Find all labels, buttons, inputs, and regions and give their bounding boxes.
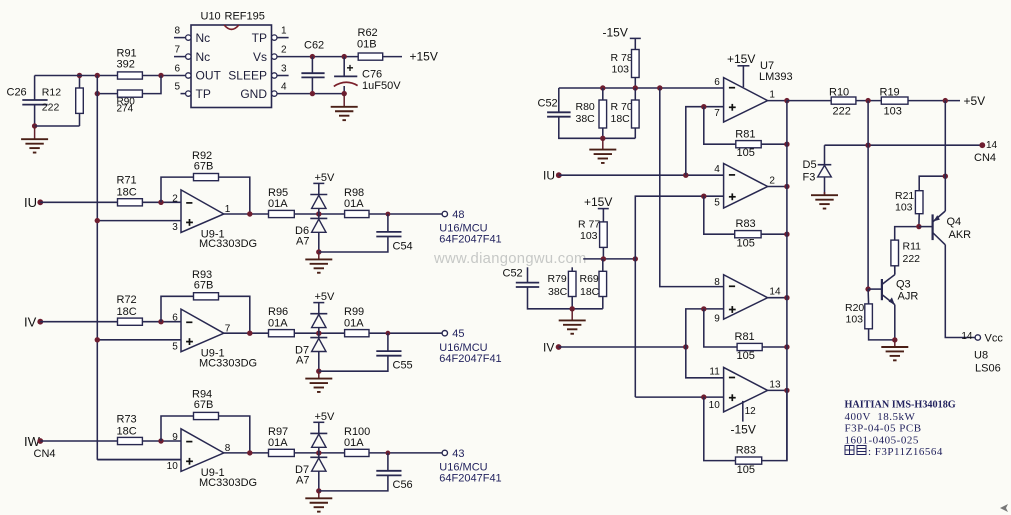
label 14 CN4 xyxy=(974,140,998,164)
wire R81 to + xyxy=(704,107,736,145)
diode D6 upper xyxy=(310,195,327,209)
svg-text:2: 2 xyxy=(172,193,178,204)
resistor R71 xyxy=(117,175,143,206)
label U9-1 xyxy=(199,228,257,250)
wire output xyxy=(768,100,787,102)
transistor Q3 xyxy=(882,266,918,305)
wire xyxy=(369,332,442,334)
pin 6 OUT xyxy=(174,64,221,83)
wire xyxy=(742,401,744,422)
wire pin9 to R81 xyxy=(704,309,737,347)
wire xyxy=(602,209,604,222)
wire OUT net xyxy=(35,75,118,77)
svg-text:MC3303DG: MC3303DG xyxy=(199,357,257,369)
svg-text:A7: A7 xyxy=(296,474,309,486)
pin labels xyxy=(714,277,781,325)
svg-text:Vs: Vs xyxy=(253,50,267,64)
wire xyxy=(219,177,250,214)
resistor R81 second xyxy=(735,331,763,362)
junction xyxy=(784,98,789,103)
wire xyxy=(894,266,896,275)
svg-text:1601-0405-025: 1601-0405-025 xyxy=(845,435,919,447)
resistor R20 xyxy=(845,302,872,329)
wire xyxy=(161,416,194,441)
label U9-1 xyxy=(199,348,257,370)
label D6 A7 xyxy=(295,225,309,247)
svg-text:: F3P11Z16564: : F3P11Z16564 xyxy=(868,446,943,458)
junction xyxy=(247,211,252,216)
wire xyxy=(318,328,320,334)
wire xyxy=(867,289,870,304)
resistor R72 xyxy=(117,294,143,325)
resistor R21 xyxy=(895,190,923,214)
label U7 LM393 xyxy=(759,60,793,83)
wire xyxy=(35,125,80,127)
IC notch xyxy=(224,25,239,29)
resistor R12 xyxy=(42,86,83,113)
svg-text:222: 222 xyxy=(903,253,921,265)
pin labels xyxy=(714,77,775,119)
junction xyxy=(865,286,870,291)
wire xyxy=(40,440,117,442)
junction xyxy=(633,85,638,90)
power -15V pin12 xyxy=(731,406,757,436)
label D7 A7 xyxy=(295,464,309,486)
svg-text:IU: IU xyxy=(543,169,555,183)
svg-text:5: 5 xyxy=(174,82,180,93)
svg-text:18C: 18C xyxy=(117,425,137,437)
svg-text:R62: R62 xyxy=(358,27,378,39)
wire xyxy=(161,177,194,202)
svg-text:TP: TP xyxy=(196,87,211,101)
svg-text:R73: R73 xyxy=(117,413,137,425)
svg-text:-15V: -15V xyxy=(603,25,628,39)
svg-text:8: 8 xyxy=(174,26,180,37)
pin labels xyxy=(172,193,231,233)
junction xyxy=(32,123,37,128)
svg-text:48: 48 xyxy=(452,209,464,221)
wire xyxy=(319,356,388,372)
wire xyxy=(319,475,388,491)
wire xyxy=(343,57,345,77)
junction xyxy=(601,256,606,261)
junction xyxy=(158,200,163,205)
junction xyxy=(570,306,575,311)
svg-text:C55: C55 xyxy=(393,360,413,372)
svg-text:R71: R71 xyxy=(117,175,137,187)
wire CN4 line xyxy=(825,144,980,146)
svg-text:+5V: +5V xyxy=(315,411,336,423)
resistor R93 feedback xyxy=(192,269,213,292)
resistor R94 feedback xyxy=(192,389,213,412)
junction xyxy=(633,256,638,261)
svg-text:5: 5 xyxy=(172,341,178,352)
diode D7 lower xyxy=(310,338,327,352)
junction xyxy=(316,249,321,254)
wire xyxy=(559,346,686,348)
resistor R92 body xyxy=(194,174,219,181)
junction xyxy=(943,174,948,179)
node 14 Vcc xyxy=(975,335,980,340)
svg-text:TP: TP xyxy=(252,31,267,45)
wire xyxy=(602,259,604,271)
svg-text:C62: C62 xyxy=(304,40,324,52)
IC U10 REF195 xyxy=(191,11,272,108)
wire xyxy=(318,422,320,433)
svg-text:R83: R83 xyxy=(736,444,756,456)
svg-text:R 78: R 78 xyxy=(611,52,633,64)
svg-text:R21: R21 xyxy=(895,190,914,202)
comparator U7 LM393 A xyxy=(724,78,768,123)
wire xyxy=(602,88,604,100)
svg-text:+5V: +5V xyxy=(315,291,336,303)
wire xyxy=(559,117,636,139)
svg-text:IV: IV xyxy=(543,340,554,354)
wire Q3 base line xyxy=(867,101,869,290)
junction xyxy=(657,85,662,90)
svg-text:CN4: CN4 xyxy=(974,152,996,164)
resistor R10 xyxy=(829,86,856,117)
ground xyxy=(881,340,908,360)
wire xyxy=(318,214,320,218)
pin 8 Nc xyxy=(174,26,210,45)
wire xyxy=(294,452,344,454)
svg-text:Nc: Nc xyxy=(196,31,211,45)
junction xyxy=(247,450,252,455)
wire xyxy=(762,390,787,460)
resistor R92 feedback xyxy=(192,150,213,173)
label HAITIAN block xyxy=(845,400,956,459)
comparator U7 LM393 B xyxy=(724,164,768,209)
junction xyxy=(316,488,321,493)
svg-text:REF195: REF195 xyxy=(225,11,265,23)
svg-text:F3: F3 xyxy=(803,172,816,184)
svg-text:400V 18.5kW: 400V 18.5kW xyxy=(845,411,916,423)
wire comp4 + input xyxy=(635,396,723,398)
svg-text:U10: U10 xyxy=(201,11,221,23)
svg-text:OUT: OUT xyxy=(196,69,222,83)
svg-text:105: 105 xyxy=(737,464,755,476)
svg-text:222: 222 xyxy=(42,101,60,113)
ground xyxy=(589,138,616,163)
svg-text:18C: 18C xyxy=(580,286,600,298)
wire xyxy=(224,213,269,215)
svg-text:-15V: -15V xyxy=(731,422,756,436)
svg-text:R20: R20 xyxy=(845,302,864,314)
junction xyxy=(683,344,688,349)
wire xyxy=(919,176,945,191)
wire xyxy=(387,214,389,232)
wire xyxy=(34,105,36,126)
svg-text:222: 222 xyxy=(833,106,851,118)
svg-text:R 77: R 77 xyxy=(578,218,600,230)
svg-text:1uF50V: 1uF50V xyxy=(362,80,401,92)
svg-text:R72: R72 xyxy=(117,294,137,306)
junction xyxy=(95,218,100,223)
svg-text:IU: IU xyxy=(24,195,37,210)
svg-text:D5: D5 xyxy=(803,159,817,171)
comparator U7 LM393 C xyxy=(724,275,768,320)
svg-text:01B: 01B xyxy=(357,38,377,50)
wire xyxy=(319,237,388,253)
resistor R93 body xyxy=(194,293,219,300)
svg-text:HAITIAN IMS-H34018G: HAITIAN IMS-H34018G xyxy=(845,400,956,411)
svg-text:18C: 18C xyxy=(117,187,137,199)
resistor R90 xyxy=(117,90,143,115)
wire xyxy=(79,113,81,126)
wire xyxy=(294,213,344,215)
junction xyxy=(342,91,347,96)
label 14 Vcc U8 LS06 xyxy=(961,331,1003,375)
svg-text:9: 9 xyxy=(172,432,178,443)
resistor R19 xyxy=(880,86,909,117)
wire xyxy=(318,183,320,194)
svg-text:103: 103 xyxy=(580,230,598,242)
svg-text:+: + xyxy=(347,61,354,75)
pin labels xyxy=(167,432,231,472)
svg-text:R83: R83 xyxy=(736,218,756,230)
comparator U7 LM393 D xyxy=(724,367,768,412)
wire xyxy=(219,296,250,333)
wire xyxy=(142,201,181,203)
wire xyxy=(558,88,560,112)
power +15V xyxy=(727,52,755,66)
svg-text:Q4: Q4 xyxy=(947,216,962,228)
svg-text:105: 105 xyxy=(737,147,755,159)
resistor R95 xyxy=(268,187,294,218)
transistor Q4 xyxy=(933,211,972,245)
junction xyxy=(386,212,391,217)
wire comp1 + input xyxy=(686,107,724,176)
wire xyxy=(311,77,313,93)
svg-text:A7: A7 xyxy=(296,235,309,247)
svg-text:14: 14 xyxy=(961,331,973,342)
resistor R11 xyxy=(891,240,921,266)
pin 5 TP xyxy=(174,82,210,101)
svg-text:CN4: CN4 xyxy=(34,448,56,460)
svg-text:18C: 18C xyxy=(611,113,631,125)
label 45 U16/MCU xyxy=(439,328,501,365)
wire xyxy=(224,332,269,334)
svg-text:Nc: Nc xyxy=(196,50,211,64)
junction xyxy=(386,331,391,336)
label D7 A7 xyxy=(295,344,309,366)
wire xyxy=(219,416,250,453)
wire xyxy=(142,440,181,442)
wire xyxy=(528,287,603,309)
junction xyxy=(316,450,321,455)
wire xyxy=(602,297,604,309)
wire xyxy=(40,321,117,323)
wire comp3 - input xyxy=(660,88,724,287)
svg-text:R81: R81 xyxy=(735,331,755,343)
svg-text:AKR: AKR xyxy=(949,229,972,241)
wire xyxy=(277,56,358,58)
wire comp2 + input xyxy=(635,196,723,397)
svg-text:+15V: +15V xyxy=(727,52,755,66)
ground xyxy=(559,309,586,334)
pin 7 Nc xyxy=(174,45,210,64)
ground xyxy=(305,252,332,273)
power +5V xyxy=(313,411,335,423)
wire xyxy=(918,214,920,227)
diode D7 upper xyxy=(310,433,327,447)
wire middle divider net xyxy=(583,258,635,260)
resistor R62 xyxy=(357,27,383,60)
svg-text:R69: R69 xyxy=(580,273,599,285)
svg-text:A7: A7 xyxy=(296,355,309,367)
capacitor C76 electrolytic xyxy=(334,61,401,92)
wire xyxy=(761,143,787,145)
svg-text:392: 392 xyxy=(117,59,135,71)
svg-text:10: 10 xyxy=(167,461,179,472)
wire xyxy=(369,452,442,454)
junction xyxy=(865,143,870,148)
wire xyxy=(161,296,194,321)
svg-text:AJR: AJR xyxy=(898,291,919,303)
wire output bus xyxy=(786,101,788,461)
svg-text:38C: 38C xyxy=(548,286,568,298)
svg-text:01A: 01A xyxy=(344,437,364,449)
junction xyxy=(158,73,163,78)
junction xyxy=(701,394,706,399)
wire R83 second to + xyxy=(704,397,736,461)
wire xyxy=(602,128,604,138)
junction xyxy=(247,331,252,336)
op-amp U9-1 MC3303DG xyxy=(181,429,224,472)
capacitor C52 xyxy=(503,268,540,287)
node output 45 xyxy=(442,331,447,336)
resistor R78 xyxy=(611,50,640,78)
junction xyxy=(784,295,789,300)
svg-text:IV: IV xyxy=(24,315,37,330)
svg-text:www.diangongwu.com: www.diangongwu.com xyxy=(433,251,587,267)
node 14 CN4 xyxy=(979,142,985,148)
wire output xyxy=(768,297,787,299)
svg-text:105: 105 xyxy=(737,237,755,249)
svg-text:1: 1 xyxy=(769,90,775,101)
capacitor C26 xyxy=(7,87,48,105)
wire xyxy=(856,100,881,102)
wire Q4 emitter to Vcc xyxy=(945,245,975,338)
wire top divider net xyxy=(559,87,724,89)
power +5V xyxy=(313,291,335,303)
pin labels xyxy=(714,164,775,208)
wire output xyxy=(768,389,787,391)
svg-text:C52: C52 xyxy=(538,97,558,109)
junction xyxy=(784,184,789,189)
svg-text:C54: C54 xyxy=(393,240,413,252)
node IU xyxy=(24,195,43,210)
wire xyxy=(602,247,604,259)
pin 3 SLEEP xyxy=(228,64,288,83)
svg-text:R 70: R 70 xyxy=(611,101,633,113)
wire xyxy=(894,305,896,340)
node IU xyxy=(543,169,562,183)
resistor R98 xyxy=(344,187,369,218)
wire output xyxy=(768,186,787,188)
wire xyxy=(634,38,636,49)
diode D6 lower xyxy=(310,218,327,232)
svg-text:4: 4 xyxy=(714,164,720,175)
wire xyxy=(97,93,117,95)
resistor R70 xyxy=(611,100,640,128)
svg-text:R91: R91 xyxy=(117,47,137,59)
junction xyxy=(701,194,706,199)
wire xyxy=(787,100,831,102)
wire xyxy=(869,329,895,340)
resistor R77 xyxy=(578,218,607,247)
capacitor C62 xyxy=(301,40,324,78)
resistor R91 xyxy=(117,47,143,79)
junction xyxy=(310,91,315,96)
junction xyxy=(316,211,321,216)
svg-text:01A: 01A xyxy=(344,198,364,210)
svg-text:67B: 67B xyxy=(194,160,214,172)
svg-text:MC3303DG: MC3303DG xyxy=(199,238,257,250)
svg-text:C56: C56 xyxy=(393,479,413,491)
svg-text:14: 14 xyxy=(769,287,781,298)
wire xyxy=(895,227,919,241)
resistor R100 xyxy=(344,426,370,457)
wire xyxy=(318,208,320,214)
wire xyxy=(40,201,117,203)
svg-text:14: 14 xyxy=(986,140,998,151)
svg-text:01A: 01A xyxy=(268,198,288,210)
junction xyxy=(600,136,605,141)
wire xyxy=(142,76,161,94)
svg-text:1: 1 xyxy=(281,26,287,37)
wire xyxy=(97,339,181,341)
svg-text:4: 4 xyxy=(281,82,287,93)
junction xyxy=(784,388,789,393)
pin labels xyxy=(172,313,231,353)
svg-text:01A: 01A xyxy=(268,437,288,449)
junction xyxy=(784,232,789,237)
wire xyxy=(318,453,320,457)
wire xyxy=(559,174,724,176)
svg-text:U8: U8 xyxy=(974,350,988,362)
svg-text:6: 6 xyxy=(172,313,178,324)
capacitor C55 xyxy=(376,351,412,371)
wire xyxy=(97,459,181,461)
svg-text:6: 6 xyxy=(714,77,720,88)
node IV xyxy=(543,340,561,354)
svg-text:12: 12 xyxy=(745,406,757,417)
junction xyxy=(784,344,789,349)
wire xyxy=(343,86,345,94)
svg-text:LS06: LS06 xyxy=(975,363,1001,375)
pin 2 Vs xyxy=(253,45,287,64)
svg-text:01A: 01A xyxy=(344,317,364,329)
svg-text:SLEEP: SLEEP xyxy=(228,69,267,83)
junction xyxy=(95,337,100,342)
op-amp U9-1 MC3303DG xyxy=(181,190,224,233)
junction xyxy=(316,331,321,336)
wire xyxy=(97,220,181,222)
wire xyxy=(294,332,344,334)
svg-text:103: 103 xyxy=(846,313,864,325)
pin 1 TP xyxy=(252,26,289,45)
junction xyxy=(95,91,100,96)
wire xyxy=(571,297,573,309)
label U9-1 xyxy=(199,467,257,489)
svg-text:+15V: +15V xyxy=(584,195,612,209)
diode D5 xyxy=(803,145,832,195)
svg-text:Q3: Q3 xyxy=(896,278,911,290)
resistor R81 xyxy=(735,128,761,159)
wire xyxy=(387,333,389,351)
